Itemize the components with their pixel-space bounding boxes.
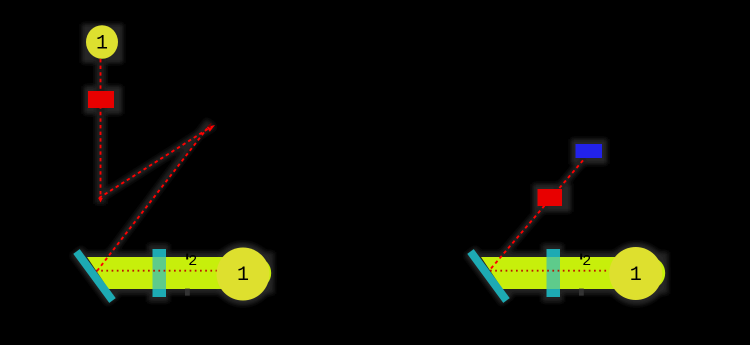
svg-text:2: 2 — [188, 253, 197, 270]
svg-text:1: 1 — [96, 33, 108, 56]
svg-text:2: 2 — [582, 253, 591, 270]
svg-text:1: 1 — [237, 264, 249, 287]
svg-text:1: 1 — [630, 264, 642, 287]
